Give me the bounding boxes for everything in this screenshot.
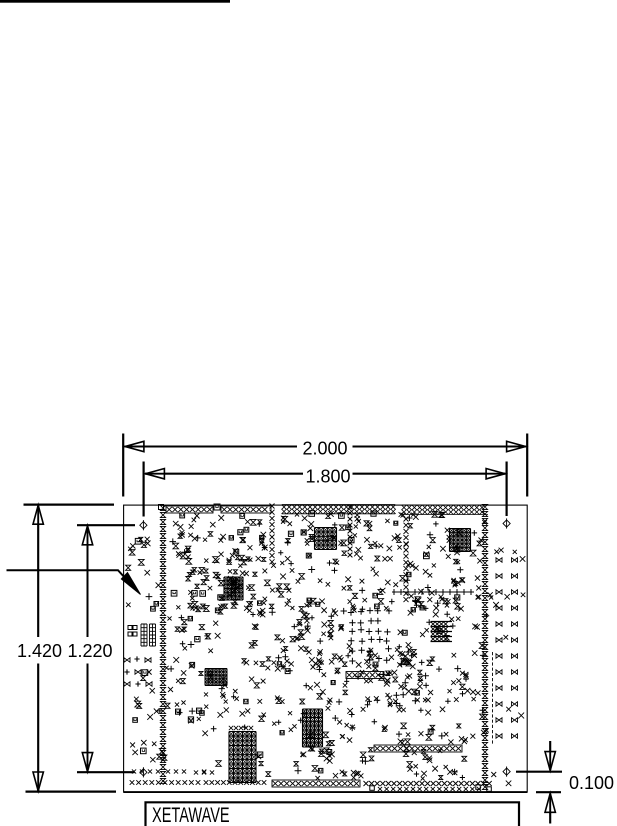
dimension 1.220 line xyxy=(87,527,89,772)
top divider bar xyxy=(0,0,230,3)
IC block D (left edge striped) xyxy=(141,624,147,646)
IC block E (checkered) xyxy=(205,669,227,686)
component pattern: top edge connector chains xyxy=(159,505,164,510)
component pattern: bottom-left bowties xyxy=(124,658,130,662)
plus-grid cluster I xyxy=(348,609,354,615)
fiducial bottom-right xyxy=(503,767,510,777)
dimension 1.220 extension line top xyxy=(77,524,135,526)
dimension 1.220 arrow up xyxy=(82,526,92,545)
dimension 1.220 arrow down xyxy=(82,753,92,772)
component pattern: mid horizontal chains xyxy=(346,672,384,679)
dimension 1.420 arrow down xyxy=(33,772,43,791)
svg-text:1.220: 1.220 xyxy=(68,641,113,661)
IC grid block B (top right) xyxy=(450,529,471,552)
title block box xyxy=(146,802,520,826)
dimension 1.420 extension line top xyxy=(24,504,115,506)
svg-text:1.420: 1.420 xyxy=(17,641,62,661)
svg-text:1.800: 1.800 xyxy=(306,466,351,486)
leader line with arrow xyxy=(7,570,132,584)
component pattern: vertical chains xyxy=(160,505,165,510)
scattered test points and component marks xyxy=(129,550,135,556)
svg-text:2.000: 2.000 xyxy=(303,438,348,458)
dimension 0.100 arrow up xyxy=(549,795,551,824)
dimension 1.220 extension line bottom xyxy=(77,771,135,773)
component pattern: top edge crosshatch bands xyxy=(282,505,287,510)
component pattern: right margin bowtie test points xyxy=(496,558,502,562)
dimension 0.100 arrow down xyxy=(549,741,551,770)
dimension 1.800 extension line left xyxy=(143,462,145,517)
IC grid block A (top middle) xyxy=(315,528,337,550)
svg-text:0.100: 0.100 xyxy=(569,773,614,793)
dimension 1.420 extension line bottom xyxy=(26,790,117,792)
refdes text column xyxy=(492,652,494,655)
PCB board outline xyxy=(124,505,528,792)
fiducial bottom-left xyxy=(140,767,147,777)
fiducial top-left xyxy=(140,520,147,530)
dimension 1.800 extension line right xyxy=(506,462,508,517)
dimension 1.420 arrow up xyxy=(33,505,43,524)
dimension 0.100 extension line bottom xyxy=(536,791,561,793)
svg-text:XETAWAVE: XETAWAVE xyxy=(152,802,230,826)
dimension 2.000 arrow right xyxy=(507,441,526,451)
dimension 2.000 extension line left xyxy=(122,434,124,497)
dimension 1.420 line xyxy=(37,506,39,791)
dimension 0.100 extension line top xyxy=(516,771,562,773)
IC grid block H (bottom middle tall) xyxy=(303,709,323,747)
dimension 2.000 extension line right xyxy=(526,434,528,497)
IC grid block G (large bottom) xyxy=(229,732,256,783)
component pattern: plus chain right-center xyxy=(392,591,474,593)
dimension 2.000 line xyxy=(125,446,526,448)
component pattern: bottom edge chains xyxy=(132,769,136,773)
IC grid block C (mid left) xyxy=(224,577,243,600)
dimension 2.000 arrow left xyxy=(125,441,144,451)
fiducial top-right xyxy=(503,518,510,528)
IC block F (striped rows) xyxy=(431,622,435,626)
dimension 1.800 arrow right xyxy=(486,469,505,479)
dimension 1.800 line xyxy=(145,473,505,475)
dimension 1.800 arrow left xyxy=(145,469,164,479)
